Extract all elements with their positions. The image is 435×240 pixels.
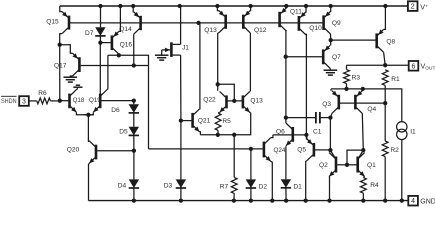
wire Q17 base line bbox=[81, 65, 149, 67]
node on V+ rail bbox=[131, 4, 135, 8]
label R2 bbox=[390, 147, 399, 154]
node R7 on GND rail bbox=[232, 198, 236, 202]
wire Q6 base bus bbox=[273, 134, 307, 136]
node R5 bottom bbox=[216, 133, 220, 137]
wire R2 bottom bbox=[384, 157, 386, 201]
wire Q11 emitter bbox=[285, 6, 287, 8]
wire Q19 emitter tail bbox=[84, 112, 94, 115]
label R7 bbox=[220, 183, 229, 190]
label Q17 bbox=[54, 62, 67, 69]
wire R4 bottom bbox=[362, 193, 364, 200]
diode D2 bbox=[246, 179, 256, 188]
wire Q20 emitter to rail bbox=[88, 163, 91, 200]
wire Q12 emitter bbox=[249, 6, 251, 11]
node Q1/Q2 bases bbox=[345, 163, 349, 167]
svg-text:Q16: Q16 bbox=[120, 41, 133, 48]
node Q1C/Q4C bbox=[361, 148, 365, 152]
wire Q16 base bbox=[100, 42, 111, 44]
node I1 on GND rail bbox=[400, 198, 404, 202]
wire D5 to node bbox=[133, 135, 135, 150]
wire left column bbox=[59, 45, 61, 101]
node diff pair tail bbox=[86, 113, 90, 117]
resistor R5 bbox=[215, 113, 221, 130]
label R1 bbox=[391, 76, 400, 83]
svg-text:Q1: Q1 bbox=[367, 162, 376, 169]
svg-text:Q12: Q12 bbox=[254, 27, 267, 34]
wire Q10 collector bbox=[305, 34, 308, 35]
svg-text:3: 3 bbox=[22, 99, 26, 106]
wire node to D4 bbox=[133, 151, 135, 180]
ground Q18 collector bbox=[73, 85, 82, 87]
wire D4 cathode bbox=[133, 188, 135, 201]
node Q7 base tap bbox=[284, 55, 288, 59]
label Q1 bbox=[367, 162, 376, 169]
svg-text:Q8: Q8 bbox=[386, 39, 395, 46]
wire D2 column bbox=[250, 149, 252, 180]
wire Q7 collector bbox=[329, 68, 331, 69]
wire J1 gate down bbox=[161, 50, 163, 55]
wire Q5 collector bbox=[306, 161, 307, 201]
label R4 bbox=[370, 182, 379, 189]
svg-text:Q13: Q13 bbox=[250, 98, 263, 105]
node on V+ rail bbox=[98, 4, 102, 8]
node Q16/Q19 collector join bbox=[117, 53, 121, 57]
transistor Q2 bbox=[329, 153, 336, 177]
label R5 bbox=[222, 118, 231, 125]
wire D7 node to Q19 bar bbox=[99, 43, 101, 95]
wire Q6 emitter down bbox=[285, 146, 287, 179]
label Q5 bbox=[297, 147, 306, 154]
resistor R6 bbox=[37, 98, 51, 104]
node Q4 emitter tap bbox=[361, 87, 365, 91]
wire R1R2 link bbox=[384, 103, 386, 141]
wire Q7 base line bbox=[286, 56, 322, 58]
wire Q19 collector riser bbox=[106, 55, 109, 89]
transistor Q21 bbox=[193, 109, 200, 132]
svg-text:Q18: Q18 bbox=[73, 97, 85, 104]
svg-text:R6: R6 bbox=[38, 90, 47, 97]
label Q3 bbox=[322, 101, 331, 108]
node C1 tap bbox=[284, 115, 288, 119]
node R2 on GND rail bbox=[383, 198, 387, 202]
node R4 on GND rail bbox=[361, 198, 365, 202]
node Q22 bias tap bbox=[216, 82, 220, 86]
node SHDN/Q18 base bbox=[58, 99, 62, 103]
capacitor C1 bbox=[286, 112, 331, 123]
svg-text:D3: D3 bbox=[164, 182, 173, 189]
svg-text:D7: D7 bbox=[85, 30, 94, 37]
node D4 on GND rail bbox=[132, 198, 136, 202]
node D2 anode tap bbox=[249, 147, 253, 151]
wire Q21 emitter to bus bbox=[199, 132, 202, 135]
label C1 bbox=[313, 128, 322, 135]
transistor Q24 bbox=[264, 138, 271, 162]
label Q18 bbox=[73, 97, 85, 104]
resistor R7 bbox=[231, 177, 237, 193]
wire Q8 emitter bbox=[384, 6, 386, 29]
pin 3 SHDN bbox=[19, 96, 29, 106]
node Q2E on GND rail bbox=[327, 198, 331, 202]
svg-text:Q10: Q10 bbox=[309, 25, 322, 32]
wire Q22 base link bbox=[218, 84, 235, 101]
node Q24E on GND rail bbox=[270, 198, 274, 202]
svg-text:R3: R3 bbox=[352, 74, 361, 81]
node Q5C on GND rail bbox=[304, 198, 308, 202]
wire Q10 emitter bbox=[305, 6, 307, 12]
wire Q8 base line bbox=[331, 39, 376, 41]
label Q2 bbox=[319, 162, 328, 169]
transistor Q18 bbox=[70, 90, 77, 113]
wire Q15 emitter from rail bbox=[60, 6, 62, 12]
wire Q24 base bus bbox=[149, 148, 263, 150]
label D4 bbox=[118, 182, 127, 189]
label Q6 bbox=[276, 128, 285, 135]
wire tail down to Q20 bbox=[87, 115, 89, 142]
wire Q15 collector bbox=[60, 34, 62, 45]
node Q3/Q4 base node bbox=[383, 101, 387, 105]
wire Q13b collector bbox=[249, 111, 252, 113]
wire base bias rail bbox=[69, 22, 324, 24]
svg-text:Q17: Q17 bbox=[54, 62, 67, 69]
label D2 bbox=[259, 183, 268, 190]
node on V+ rail bbox=[248, 4, 252, 8]
wire Q4 collector bbox=[362, 113, 363, 150]
wire Q21 base bbox=[181, 120, 192, 122]
wire D7 anode bbox=[100, 6, 102, 27]
wire Q3 collector bbox=[330, 113, 332, 117]
wire D6-D5 bbox=[133, 113, 135, 127]
wire Q19 base bbox=[101, 100, 133, 102]
label Q11 bbox=[290, 8, 302, 15]
diode D6 bbox=[129, 101, 139, 113]
svg-text:GND: GND bbox=[420, 199, 435, 206]
svg-text:D2: D2 bbox=[259, 183, 268, 190]
wire Q18 collector to mini ground bbox=[76, 87, 78, 89]
wire Q20 base bbox=[97, 150, 134, 152]
wire Q5 base bbox=[315, 149, 330, 151]
transistor Q6 bbox=[286, 123, 293, 146]
node Q15C/Q17E bbox=[58, 43, 62, 47]
resistor R4 bbox=[361, 178, 367, 194]
wire Q21 collector riser bbox=[199, 23, 201, 109]
wire Q2 emitter to rail bbox=[328, 177, 330, 201]
svg-text:Q9: Q9 bbox=[332, 20, 341, 27]
diode D7 bbox=[95, 27, 105, 36]
label Q4 bbox=[367, 106, 376, 113]
wire pin3 to R6 bbox=[29, 100, 37, 102]
ground Q7 bbox=[324, 70, 338, 75]
wire Q22/Q13b base line bbox=[227, 100, 243, 102]
wire Q10 collector column bbox=[305, 34, 307, 140]
wire Q18 base bbox=[60, 100, 69, 102]
diode D5 bbox=[129, 127, 139, 136]
ground Q17 bbox=[64, 77, 78, 82]
wire Q9 emitter bbox=[330, 6, 332, 11]
wire Q18 emitter tail bbox=[76, 112, 93, 115]
svg-text:Q3: Q3 bbox=[322, 101, 331, 108]
label J1 bbox=[182, 44, 189, 51]
node R3 on emitter rail bbox=[344, 87, 348, 91]
svg-text:Q7: Q7 bbox=[332, 54, 341, 61]
resistor R2 bbox=[382, 141, 388, 157]
wire top V+ rail bbox=[60, 5, 408, 7]
wire Q14 collector bbox=[133, 34, 135, 65]
svg-text:R7: R7 bbox=[220, 183, 229, 190]
node Q6 base on Q10C bbox=[304, 133, 308, 137]
wire Q13 emitter bbox=[217, 6, 218, 11]
wire J1 drain to rail bbox=[179, 6, 182, 44]
wire Q24 collector bbox=[271, 135, 273, 138]
diode D3 bbox=[176, 179, 186, 188]
transistor Q14 bbox=[134, 12, 141, 34]
wire R6 to node bbox=[50, 100, 57, 102]
transistor Q22 bbox=[220, 91, 227, 112]
jfet J1 bbox=[162, 42, 181, 57]
node Q20 base/D5/D4 bbox=[132, 149, 136, 153]
node on V+ rail bbox=[215, 4, 219, 8]
svg-text:R2: R2 bbox=[390, 147, 399, 154]
label V+ bbox=[420, 2, 428, 11]
svg-text:Q15: Q15 bbox=[46, 18, 59, 25]
wire R5 bottom bbox=[217, 130, 219, 134]
svg-text:Q14: Q14 bbox=[119, 26, 132, 33]
diode D1 bbox=[281, 179, 291, 188]
resistor R1 bbox=[382, 70, 388, 86]
svg-text:J1: J1 bbox=[182, 44, 189, 51]
svg-text:Q13: Q13 bbox=[204, 27, 217, 34]
label Q19 bbox=[89, 97, 101, 104]
wire 2nd stage bus bbox=[200, 113, 250, 135]
node VOUT/R1/Q8C bbox=[383, 63, 387, 67]
label Q14 bbox=[119, 26, 132, 33]
label D5 bbox=[119, 128, 128, 135]
wire Q16 emitter riser bbox=[119, 6, 121, 31]
wire Q8 collector bbox=[384, 52, 386, 65]
svg-text:C1: C1 bbox=[313, 128, 322, 135]
pin 6 VOUT bbox=[409, 61, 419, 71]
node Q9C/Q8 base/Q7 bbox=[329, 38, 333, 42]
label GND bbox=[420, 199, 435, 206]
wire I1 bottom bbox=[401, 140, 403, 201]
svg-text:2: 2 bbox=[411, 4, 415, 11]
wire Q22 collector to R5 bbox=[218, 111, 220, 114]
wire R7 bottom bbox=[233, 193, 235, 200]
wire Q2 collector bbox=[330, 150, 335, 158]
label Q13 bbox=[204, 27, 217, 34]
wire Q16/Q19 collector bus bbox=[108, 55, 149, 149]
svg-text:Q20: Q20 bbox=[67, 147, 80, 154]
wire Q17 collector bbox=[70, 76, 72, 77]
wire Q9 collector bbox=[330, 34, 332, 40]
svg-text:R5: R5 bbox=[222, 118, 231, 125]
svg-text:Q24: Q24 bbox=[274, 147, 286, 154]
label Q9 bbox=[332, 20, 341, 27]
svg-text:Q6: Q6 bbox=[276, 128, 285, 135]
wire VOUT line bbox=[347, 64, 409, 66]
wire D1 cathode bbox=[285, 188, 287, 201]
resistor R3 bbox=[344, 70, 350, 84]
svg-text:4: 4 bbox=[411, 198, 415, 205]
svg-text:R1: R1 bbox=[391, 76, 400, 83]
transistor Q12 bbox=[243, 11, 250, 33]
label D7 bbox=[85, 30, 94, 37]
wire Q5 emitter bbox=[305, 135, 308, 139]
wire Q11 collector bbox=[285, 30, 288, 33]
node on V+ rail bbox=[284, 4, 288, 8]
pin 2 V+ bbox=[408, 1, 418, 11]
wire Q17 emitter bbox=[60, 45, 73, 54]
pin 4 GND bbox=[408, 196, 418, 206]
transistor Q5 bbox=[307, 139, 314, 161]
label D3 bbox=[164, 182, 173, 189]
wire R1 bottom bbox=[384, 85, 386, 103]
svg-text:I1: I1 bbox=[410, 129, 416, 136]
node Q22/Q13b bases bbox=[232, 99, 236, 103]
wire Q3 emitter bbox=[330, 89, 333, 91]
node on V+ rail bbox=[304, 4, 308, 8]
transistor Q13b bbox=[243, 91, 250, 112]
transistor Q8 bbox=[377, 29, 384, 52]
node Q2C/Q3C/Q5B bbox=[328, 148, 332, 152]
label R3 bbox=[352, 74, 361, 81]
label Q24 bbox=[274, 147, 286, 154]
label Q7 bbox=[332, 54, 341, 61]
svg-text:6: 6 bbox=[412, 63, 416, 70]
wire Q11 collector column bbox=[285, 31, 287, 123]
label Q16 bbox=[120, 41, 133, 48]
wire Q14 emitter from rail bbox=[132, 6, 135, 12]
label R6 bbox=[38, 90, 47, 97]
wire Q3C down bbox=[329, 118, 331, 151]
svg-text:D1: D1 bbox=[293, 183, 302, 190]
svg-text:D5: D5 bbox=[119, 128, 128, 135]
wire Q16 collector bbox=[118, 54, 120, 55]
transistor Q3 bbox=[332, 91, 339, 114]
label Q15 bbox=[46, 18, 59, 25]
wire Q1 emitter to R4 bbox=[363, 177, 364, 178]
svg-text:Q2: Q2 bbox=[319, 162, 328, 169]
svg-text:Q11: Q11 bbox=[290, 8, 302, 15]
transistor Q15 bbox=[62, 12, 69, 34]
node D3 on GND rail bbox=[179, 198, 183, 202]
wire Q7 emitter bbox=[329, 40, 332, 45]
svg-text:Q4: Q4 bbox=[367, 106, 376, 113]
wire D7 cathode bbox=[99, 36, 101, 43]
node on V+ rail bbox=[383, 4, 387, 8]
svg-text:Q5: Q5 bbox=[297, 147, 306, 154]
transistor Q20 bbox=[89, 141, 96, 164]
wire R7 column bbox=[233, 135, 235, 178]
wire Q1 base bbox=[347, 164, 357, 166]
wire Q13 collector column bbox=[218, 33, 220, 91]
label SHDN bbox=[1, 96, 17, 105]
svg-text:Q21: Q21 bbox=[198, 117, 211, 124]
wire J1 source column bbox=[180, 55, 182, 121]
svg-text:D4: D4 bbox=[118, 182, 127, 189]
label Q13b bbox=[250, 98, 263, 105]
label I1 bbox=[410, 129, 416, 136]
label Q8 bbox=[386, 39, 395, 46]
transistor Q10 bbox=[299, 12, 306, 35]
label Q12 bbox=[254, 27, 267, 34]
node D1 on GND rail bbox=[284, 198, 288, 202]
node D2 on GND rail bbox=[249, 198, 253, 202]
wire Q1 collector bbox=[359, 151, 364, 159]
label D6 bbox=[111, 107, 120, 114]
wire Q20 collector bbox=[87, 141, 90, 142]
node on V+ rail bbox=[329, 4, 333, 8]
node J1/Q21 base bbox=[179, 118, 183, 122]
node D7/Q16 base bbox=[98, 40, 102, 44]
wire Q13 collector bbox=[218, 32, 219, 34]
svg-text:Q22: Q22 bbox=[203, 96, 216, 103]
node C1 right bbox=[328, 115, 332, 119]
label Q20 bbox=[67, 147, 80, 154]
node Q14C/Q17 base bbox=[132, 63, 136, 67]
label Q10 bbox=[309, 25, 322, 32]
transistor Q13 bbox=[219, 11, 226, 33]
label Q21 bbox=[198, 117, 211, 124]
wire Q2 base bbox=[337, 164, 347, 166]
node Q19 base/D6 bbox=[132, 98, 136, 102]
wire D2 cathode bbox=[250, 188, 252, 201]
label D1 bbox=[293, 183, 302, 190]
node R7 top bbox=[232, 133, 236, 137]
svg-text:Q19: Q19 bbox=[89, 97, 101, 104]
diode D4 bbox=[129, 179, 139, 188]
wire Q3/Q4 emitter rail bbox=[331, 89, 402, 122]
wire R3 top bbox=[346, 65, 348, 69]
svg-text:D6: D6 bbox=[111, 107, 120, 114]
label Q22 bbox=[203, 96, 216, 103]
wire base riser corner bbox=[347, 150, 363, 165]
wire bottom GND rail bbox=[89, 200, 409, 202]
node on V+ rail bbox=[178, 4, 182, 8]
svg-text:SHDN: SHDN bbox=[1, 98, 17, 105]
transistor Q17 bbox=[73, 53, 80, 76]
wire D3 cathode bbox=[180, 188, 182, 201]
transistor Q11 bbox=[280, 8, 287, 31]
wire Q3/Q4 base line bbox=[339, 102, 385, 104]
wire Q4 emitter bbox=[361, 89, 364, 91]
wire R3 bottom bbox=[346, 84, 348, 89]
wire Q12 collector bbox=[249, 32, 251, 34]
node Q21 collector on bias rail bbox=[196, 21, 200, 25]
wire Q12 collector to Q13b emitter bbox=[249, 33, 252, 91]
transistor Q16 bbox=[112, 31, 119, 54]
node on V+ rail bbox=[118, 4, 122, 8]
transistor Q4 bbox=[355, 91, 362, 114]
ground J1 gate bbox=[155, 55, 169, 60]
current source I1 bbox=[397, 122, 407, 140]
transistor Q9 bbox=[324, 11, 331, 34]
transistor Q19 bbox=[93, 90, 107, 113]
transistor Q7 bbox=[323, 45, 330, 68]
svg-text:R4: R4 bbox=[370, 182, 379, 189]
transistor Q1 bbox=[358, 153, 365, 177]
label VOUT bbox=[421, 61, 435, 71]
wire source column to D3 bbox=[180, 121, 182, 180]
wire Q24 emitter to rail bbox=[271, 161, 273, 200]
